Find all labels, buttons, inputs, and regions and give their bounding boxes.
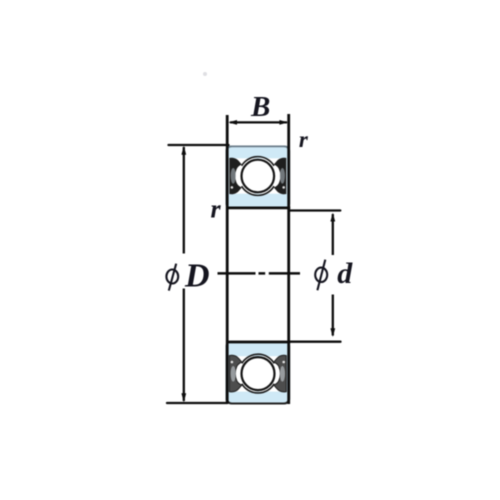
- phi-D arrow down: [181, 393, 186, 402]
- phi-d dimension line lower segment: [332, 295, 334, 336]
- centerline dot: [259, 272, 266, 275]
- label phi d: [315, 260, 327, 291]
- bottom section outer raceway arc: [242, 384, 274, 393]
- top block top edge outline: [227, 147, 289, 152]
- top section inner raceway arc: [242, 186, 274, 195]
- B dimension line: [230, 121, 287, 123]
- right face line (bearing side / B extension): [287, 114, 290, 404]
- top section ball pocket (white band): [229, 158, 287, 193]
- top section left seal: [229, 158, 242, 194]
- bottom section right seal: [274, 355, 287, 391]
- phi-D arrow up: [181, 146, 186, 155]
- phi-D dimension line upper segment: [183, 147, 185, 254]
- phi-D bottom extension line: [167, 402, 228, 404]
- left face line (bearing side / B extension): [226, 115, 229, 403]
- phi-d arrow up: [330, 213, 335, 222]
- phi-d top extension line: [290, 209, 340, 211]
- svg-text:r: r: [299, 127, 309, 152]
- bottom block bottom edge outline: [227, 399, 289, 404]
- label phi D: [166, 264, 178, 291]
- centerline dash 2: [269, 272, 300, 275]
- phi-d arrow down: [330, 328, 335, 337]
- bearing outer ring top section (blue block): [226, 146, 290, 209]
- B dimension arrow right: [279, 120, 288, 125]
- centerline dash 1: [218, 272, 256, 275]
- phi-D top extension line: [169, 144, 229, 146]
- bottom section inner raceway arc: [242, 354, 274, 363]
- svg-text:B: B: [250, 91, 270, 123]
- bottom section ball: [242, 357, 275, 390]
- top bore line: [226, 206, 290, 209]
- phi-d dimension line upper segment: [332, 214, 334, 255]
- svg-text:D: D: [184, 257, 210, 294]
- svg-text:d: d: [337, 257, 353, 290]
- bottom section left seal: [229, 355, 242, 391]
- top section outer raceway arc: [242, 157, 274, 166]
- B dimension arrow left: [228, 120, 237, 125]
- phi-D dimension line lower segment: [183, 289, 185, 402]
- svg-text:r: r: [211, 195, 222, 224]
- top section ball: [241, 160, 274, 193]
- faint artifact dot: [203, 72, 207, 76]
- bearing bottom section (blue block): [226, 341, 290, 404]
- bottom bore line: [226, 341, 290, 344]
- top section right seal: [274, 158, 287, 194]
- phi-d bottom extension line: [290, 341, 341, 343]
- bottom section ball pocket (white band): [229, 356, 287, 391]
